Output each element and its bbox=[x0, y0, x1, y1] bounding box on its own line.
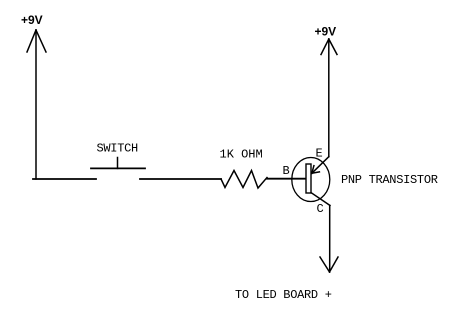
output arrow to LED board bbox=[320, 257, 338, 272]
svg-text:E: E bbox=[316, 147, 323, 161]
svg-text:1K OHM: 1K OHM bbox=[220, 147, 263, 161]
svg-text:PNP TRANSISTOR: PNP TRANSISTOR bbox=[341, 173, 438, 187]
transistor collector diagonal bbox=[311, 193, 330, 206]
wire collector vertical down bbox=[329, 206, 331, 273]
wire resistor to transistor base bbox=[267, 178, 306, 180]
svg-text:+9V: +9V bbox=[21, 13, 43, 27]
wire left horizontal to switch bbox=[33, 178, 96, 180]
transistor emitter diagonal with arrow (PNP) bbox=[312, 157, 329, 174]
transistor base bar bbox=[306, 164, 311, 193]
wire emitter vertical to +9V bbox=[328, 39, 330, 157]
svg-text:+9V: +9V bbox=[315, 25, 337, 39]
power arrow right (+9V supply) bbox=[321, 39, 337, 55]
svg-text:TO LED BOARD +: TO LED BOARD + bbox=[235, 288, 332, 302]
svg-text:B: B bbox=[283, 164, 290, 178]
wire left vertical from +9V to switch rail bbox=[35, 30, 37, 179]
wire switch to resistor bbox=[140, 178, 221, 180]
svg-text:C: C bbox=[317, 202, 324, 216]
resistor R1 1K OHM bbox=[221, 171, 267, 189]
svg-text:SWITCH: SWITCH bbox=[97, 142, 139, 156]
power arrow left (+9V supply) bbox=[27, 30, 46, 52]
switch S1 (pushbutton) bbox=[91, 158, 145, 169]
transistor Q1 body circle bbox=[292, 158, 330, 202]
